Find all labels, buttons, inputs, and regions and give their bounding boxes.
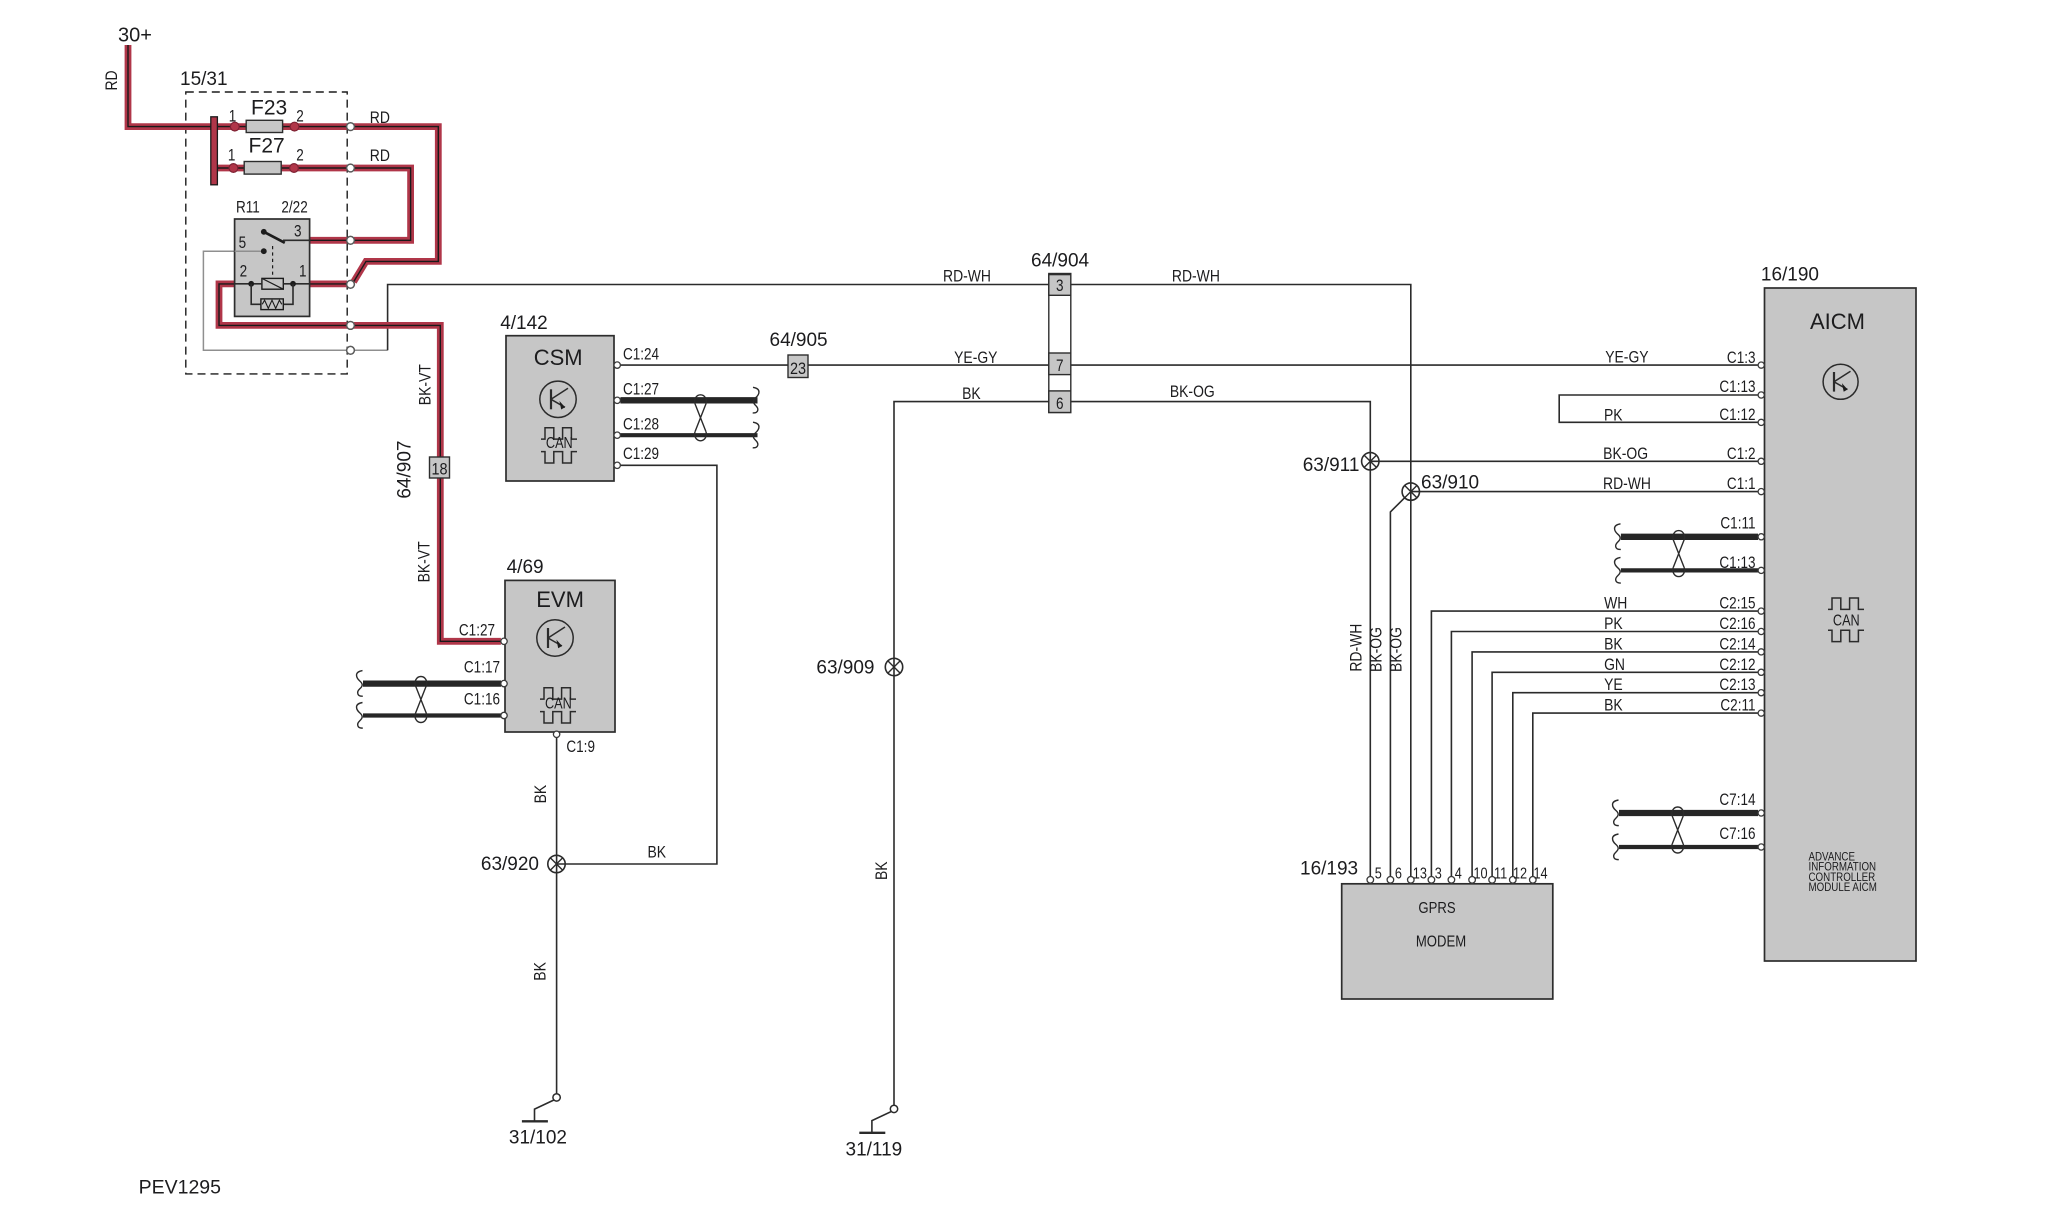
pin AICM C7:16 [1758, 844, 1764, 850]
svg-text:C1:11: C1:11 [1720, 514, 1755, 533]
pin AICM C1:13b [1758, 567, 1764, 573]
svg-text:C1:17: C1:17 [464, 658, 500, 677]
relay coil [262, 278, 283, 289]
svg-text:C7:16: C7:16 [1719, 825, 1755, 844]
svg-text:2/22: 2/22 [281, 198, 307, 217]
svg-text:YE-GY: YE-GY [1605, 348, 1649, 367]
svg-text:BK: BK [531, 962, 550, 981]
wire relay pin 3 stub [310, 237, 347, 244]
pin AICM C1:11 [1758, 534, 1764, 540]
transistor symbol in AICM [1823, 364, 1858, 399]
pin GPRS 13 [1408, 877, 1415, 884]
wire GN from GPRS pin 11 to AICM C2:12 [1492, 672, 1758, 876]
connector circle relay pin 1 [347, 280, 355, 288]
relay common dot [261, 229, 267, 235]
svg-text:BK-OG: BK-OG [1367, 627, 1386, 672]
CAN symbol in EVM [540, 688, 576, 723]
fuse F23 pin 2 terminal [290, 122, 299, 131]
svg-text:10: 10 [1474, 865, 1488, 882]
connector 64/904 cell 3 [1049, 275, 1071, 296]
connector circle 15/31 F23 output [347, 123, 355, 131]
wire WH from GPRS pin 3 to AICM C2:15 [1431, 611, 1758, 876]
svg-text:3: 3 [294, 222, 302, 241]
svg-text:PK: PK [1604, 406, 1623, 425]
svg-text:RD: RD [103, 70, 122, 90]
svg-text:BK: BK [962, 385, 981, 404]
svg-text:BK-OG: BK-OG [1170, 383, 1215, 402]
fuse F23 body [246, 120, 282, 132]
wire relay pin 1 stub [310, 280, 347, 287]
svg-text:MODEM: MODEM [1416, 934, 1466, 951]
wire RD-WH from splice 63/910 to GPRS pin 6 [1390, 497, 1405, 876]
wire PK from GPRS pin 4 to AICM C2:16 [1451, 632, 1758, 877]
svg-text:BK-OG: BK-OG [1603, 445, 1648, 464]
svg-text:BK-OG: BK-OG [1387, 627, 1406, 672]
pin CSM C1:27 [614, 397, 620, 403]
svg-text:F23: F23 [251, 97, 287, 120]
svg-text:WH: WH [1604, 594, 1627, 613]
svg-text:63/910: 63/910 [1421, 472, 1479, 493]
pin AICM C1:13 [1758, 392, 1764, 398]
svg-text:F27: F27 [249, 135, 285, 158]
wire gray from relay pin 5 to connector circle [203, 251, 387, 350]
wire RD from F23 to relay pin 1 [354, 127, 439, 282]
svg-text:5: 5 [1375, 865, 1382, 882]
svg-text:6: 6 [1395, 865, 1402, 882]
svg-text:BK: BK [648, 843, 667, 862]
svg-text:3: 3 [1056, 277, 1064, 296]
svg-text:C1:29: C1:29 [623, 445, 659, 464]
pin EVM C1:17 [501, 680, 507, 686]
svg-text:31/119: 31/119 [846, 1139, 903, 1160]
connector circle relay pin 3 [347, 236, 355, 244]
svg-text:MODULE AICM: MODULE AICM [1809, 881, 1877, 894]
svg-text:YE-GY: YE-GY [954, 349, 998, 368]
fuse F27 pin 1 terminal [229, 164, 238, 173]
wire YE from GPRS pin 12 to AICM C2:13 [1513, 693, 1758, 877]
ground 31/119 [859, 1105, 897, 1133]
svg-text:C1:1: C1:1 [1727, 475, 1756, 494]
pin GPRS 14 [1530, 877, 1537, 884]
relay switch blade [264, 232, 285, 243]
svg-text:2: 2 [240, 262, 248, 281]
splice 63/920 [548, 855, 565, 872]
wire RD fuse F23 feed [217, 123, 347, 130]
pin AICM C2:12 [1758, 669, 1764, 675]
svg-text:CAN: CAN [545, 695, 572, 712]
svg-text:BK: BK [873, 861, 892, 880]
svg-text:C1:9: C1:9 [566, 738, 595, 757]
svg-text:RD-WH: RD-WH [1347, 624, 1366, 672]
svg-text:13: 13 [1413, 865, 1427, 882]
svg-text:AICM: AICM [1810, 309, 1865, 334]
connector circle relay pin 5 [347, 346, 355, 354]
pin AICM C2:15 [1758, 608, 1764, 614]
pin GPRS 5 [1367, 877, 1374, 884]
pin AICM C1:1 [1758, 489, 1764, 495]
busbar in fuse box 15/31 [211, 117, 218, 185]
pin AICM C2:14 [1758, 649, 1764, 655]
svg-text:1: 1 [299, 262, 307, 281]
pin EVM C1:27 [501, 638, 507, 644]
svg-text:16/190: 16/190 [1761, 264, 1819, 285]
pin AICM C2:13 [1758, 690, 1764, 696]
pin AICM C1:3 [1758, 362, 1764, 368]
relay actuation dashed link [272, 246, 274, 278]
svg-text:31/102: 31/102 [509, 1127, 567, 1148]
svg-text:C1:2: C1:2 [1727, 445, 1756, 464]
svg-text:C7:14: C7:14 [1719, 791, 1755, 810]
svg-text:RD: RD [370, 147, 390, 166]
svg-text:2: 2 [296, 107, 304, 126]
svg-text:11: 11 [1494, 865, 1507, 882]
svg-text:YE: YE [1604, 676, 1623, 695]
svg-text:RD: RD [370, 109, 390, 128]
connector 64/907 pin 18 box [430, 457, 450, 478]
wire RD fuse F27 feed [217, 165, 347, 172]
connector 64/904 column [1049, 274, 1071, 413]
pin AICM C1:2 [1758, 458, 1764, 464]
svg-text:63/920: 63/920 [481, 854, 539, 875]
svg-text:C2:15: C2:15 [1719, 594, 1755, 613]
twisted pair CAN at CSM C1:27/C1:28 [620, 397, 757, 403]
svg-text:7: 7 [1056, 357, 1064, 376]
svg-text:23: 23 [790, 360, 806, 378]
svg-text:C1:28: C1:28 [623, 415, 659, 434]
svg-text:3: 3 [1435, 865, 1442, 882]
fuse F23 pin 1 terminal [230, 122, 239, 131]
twisted pair at AICM C7:14/C7:16 [1619, 810, 1758, 816]
svg-text:C2:14: C2:14 [1719, 635, 1755, 654]
svg-text:C1:13: C1:13 [1719, 554, 1755, 573]
splice 63/910 [1402, 483, 1419, 500]
svg-text:16/193: 16/193 [1300, 858, 1358, 879]
svg-text:C1:12: C1:12 [1719, 406, 1755, 425]
svg-text:CAN: CAN [1833, 612, 1860, 629]
relay R11 body [235, 219, 310, 316]
pin AICM C2:11 [1758, 710, 1764, 716]
svg-text:BK-VT: BK-VT [415, 541, 434, 582]
relay coil wires [235, 283, 310, 285]
svg-text:C1:27: C1:27 [623, 380, 659, 399]
wire RD-WH from relay connector to 64/904 pin 3 [388, 285, 1049, 351]
wire BK-VT through 64/907 pin 18 to EVM C1:27 [354, 325, 501, 641]
wire RD from F27 to relay pin 3 [354, 168, 411, 240]
fuse F27 pin 2 terminal [290, 164, 299, 173]
svg-text:15/31: 15/31 [180, 69, 228, 90]
pin GPRS 11 [1489, 877, 1496, 884]
wire BK from GPRS pin 10 to AICM C2:14 [1472, 652, 1758, 877]
svg-text:63/909: 63/909 [816, 658, 874, 679]
svg-text:4/69: 4/69 [507, 557, 544, 578]
wire BK from GPRS pin 14 to AICM C2:11 [1533, 713, 1758, 876]
relay resistor [261, 299, 283, 310]
svg-text:GN: GN [1604, 656, 1625, 675]
wire BK-OG from splice 63/911 to AICM C1:2 [1370, 460, 1758, 462]
relay parallel resistor branch [251, 284, 293, 305]
svg-text:CAN: CAN [546, 435, 573, 452]
fuse box 15/31 dashed outline [186, 92, 347, 374]
svg-text:RD-WH: RD-WH [943, 267, 991, 286]
pin GPRS 3 [1428, 877, 1435, 884]
twisted pair CAN at EVM C1:17/C1:16 [363, 680, 501, 686]
connector 64/905 pin 23 box [788, 355, 808, 378]
svg-text:BK: BK [1604, 696, 1623, 715]
relay switch contact line to pin 3 [283, 239, 310, 241]
pin GPRS 12 [1510, 877, 1517, 884]
svg-text:1: 1 [228, 146, 236, 165]
svg-text:C2:12: C2:12 [1719, 656, 1755, 675]
svg-text:4: 4 [1455, 865, 1462, 882]
svg-text:GPRS: GPRS [1418, 900, 1455, 917]
CAN symbol in AICM [1828, 598, 1864, 642]
svg-text:CSM: CSM [534, 345, 583, 370]
pin AICM C7:14 [1758, 810, 1764, 816]
connector circle 15/31 F27 output [347, 164, 355, 172]
wire BK from 64/904 pin 6 to splice 63/909 and ground 31/119 [894, 402, 1049, 1106]
wire PK jumper loop AICM C1:13 to C1:12 [1559, 395, 1758, 422]
wire YE-GY from CSM C1:24 through 64/905 to 64/904 pin 7 [620, 364, 1049, 366]
svg-text:C2:16: C2:16 [1719, 615, 1755, 634]
svg-text:BK: BK [532, 784, 551, 803]
fuse F27 body [244, 162, 281, 175]
twisted pair CAN at AICM C1:11/C1:13 [1621, 534, 1758, 540]
control module CSM 4/142 [506, 336, 614, 481]
pin CSM C1:28 [614, 432, 620, 438]
pin EVM C1:9 [553, 731, 559, 737]
svg-text:C1:16: C1:16 [464, 690, 500, 709]
svg-text:6: 6 [1056, 395, 1064, 414]
svg-text:1: 1 [229, 107, 237, 126]
pin EVM C1:16 [501, 712, 507, 718]
relay pin 5 dot [235, 250, 264, 252]
ground 31/102 [522, 1094, 560, 1122]
GPRS modem 16/193 [1342, 884, 1553, 999]
svg-text:63/911: 63/911 [1303, 455, 1360, 476]
pin GPRS 6 [1387, 877, 1394, 884]
svg-text:R11: R11 [236, 198, 260, 217]
svg-text:C1:3: C1:3 [1727, 349, 1756, 368]
pin CSM C1:29 [614, 462, 620, 468]
connector circle relay pin 2 [347, 322, 355, 330]
wire RD-WH from splice 63/910 to AICM C1:1 [1411, 491, 1758, 493]
splice 63/909 [885, 658, 902, 675]
wire BK-OG from 64/904 pin 6 to splice 63/911 and GPRS pin 5 [1071, 402, 1371, 877]
svg-text:4/142: 4/142 [500, 313, 548, 334]
svg-text:RD-WH: RD-WH [1172, 267, 1220, 286]
connector 64/904 cell 6 [1049, 391, 1071, 413]
svg-text:C1:24: C1:24 [623, 345, 659, 364]
connector 64/904 cell 7 [1049, 353, 1071, 375]
CAN symbol in CSM [541, 428, 577, 463]
svg-text:PEV1295: PEV1295 [139, 1176, 222, 1198]
pin AICM C2:16 [1758, 628, 1764, 634]
svg-text:RD-WH: RD-WH [1603, 475, 1651, 494]
wire BK from EVM C1:9 through splice 63/920 to ground 31/102 [556, 737, 558, 1093]
svg-text:BK-VT: BK-VT [416, 364, 435, 405]
svg-text:64/907: 64/907 [395, 441, 416, 499]
svg-text:C1:13: C1:13 [1719, 378, 1755, 397]
wire RD from 30+ to fuse busbar [128, 45, 211, 127]
wire relay pin 2 loop [219, 284, 347, 326]
svg-text:18: 18 [431, 460, 447, 478]
pin GPRS 10 [1469, 877, 1476, 884]
transistor symbol in CSM [540, 381, 576, 417]
wire RD-WH from 64/904 pin 3 to 63/910 and GPRS pin 13 [1071, 285, 1411, 877]
svg-text:30+: 30+ [118, 25, 152, 47]
svg-text:14: 14 [1534, 865, 1548, 882]
svg-text:EVM: EVM [536, 587, 584, 612]
svg-text:12: 12 [1513, 865, 1527, 882]
pin GPRS 4 [1448, 877, 1455, 884]
pin AICM C1:12 [1758, 419, 1764, 425]
svg-text:C1:27: C1:27 [459, 621, 495, 640]
transistor symbol in EVM [537, 620, 573, 656]
wire BK from CSM C1:29 to splice 63/920 [557, 465, 717, 864]
relay coil dots [248, 281, 254, 287]
svg-text:64/905: 64/905 [770, 330, 828, 351]
svg-text:C2:13: C2:13 [1719, 676, 1755, 695]
svg-text:2: 2 [296, 146, 304, 165]
splice 63/911 [1362, 453, 1379, 470]
svg-text:64/904: 64/904 [1031, 250, 1090, 271]
wire YE-GY from 64/904 pin 7 to AICM C1:3 [1071, 364, 1759, 366]
svg-text:PK: PK [1604, 615, 1623, 634]
control module EVM 4/69 [505, 580, 615, 732]
svg-text:BK: BK [1604, 635, 1623, 654]
pin CSM C1:24 [614, 362, 620, 368]
svg-text:C2:11: C2:11 [1720, 696, 1755, 715]
control module AICM 16/190 [1765, 288, 1917, 961]
svg-text:5: 5 [239, 234, 247, 253]
